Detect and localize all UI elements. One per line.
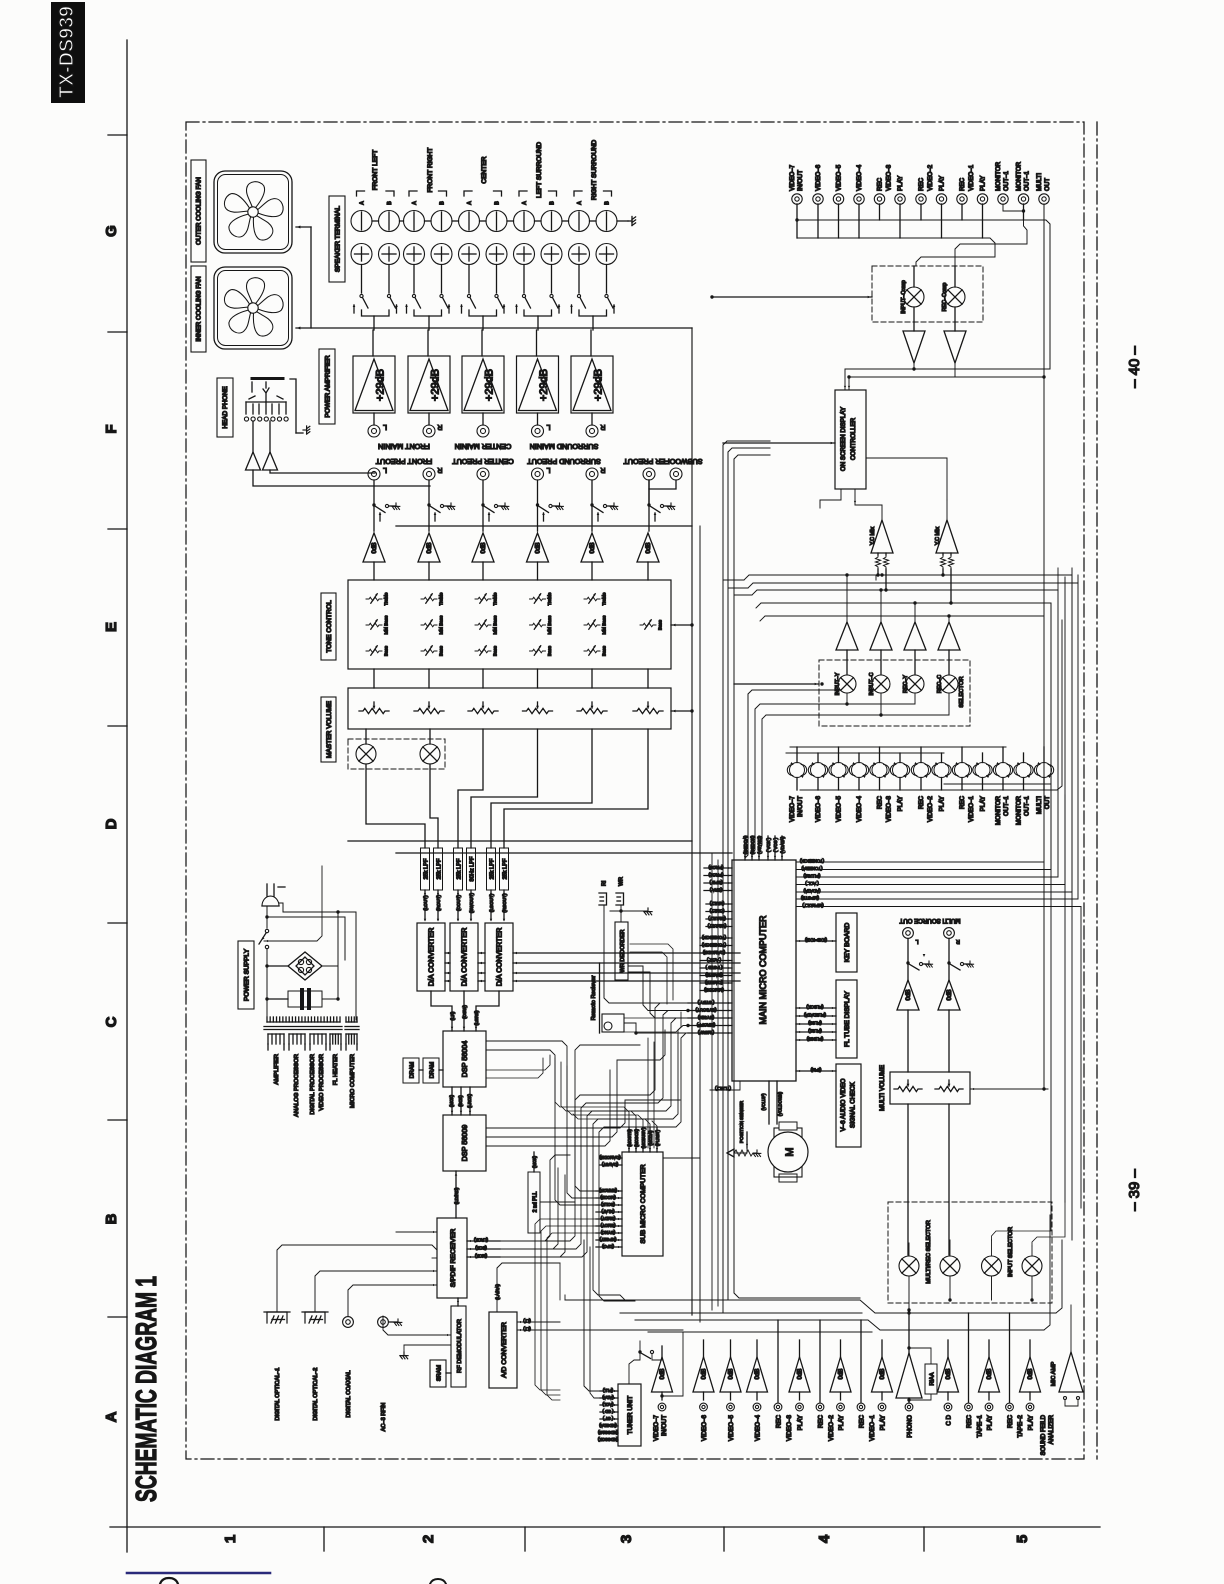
svg-text:(LR): (LR) [450,1011,455,1020]
svg-text:DRAM: DRAM [430,1061,436,1078]
svg-text:SUB MICRO COMPUTER: SUB MICRO COMPUTER [640,1164,647,1243]
svg-text:VIDEO–5: VIDEO–5 [836,795,843,822]
svg-text:B: B [605,201,611,205]
tone pot subwoofer [640,623,656,627]
svg-text:Bass: Bass [547,645,552,656]
tone pots ch5 [584,597,600,601]
wire optical1 to spdif [277,1245,437,1312]
svg-text:(MPMULT): (MPMULT) [802,903,824,908]
svg-text:VIDEO–7: VIDEO–7 [653,1414,660,1441]
svg-text:(FLS1): (FLS1) [808,1029,822,1034]
wire optical2 to spdif [315,1271,437,1312]
svg-text:Bass: Bass [439,645,444,656]
svg-text:TAPE–2: TAPE–2 [1017,1414,1024,1437]
svg-text:PLAY: PLAY [897,796,904,811]
relay multi/rec L [899,1256,919,1276]
svg-text:SOUND FEILD: SOUND FEILD [1041,1414,1047,1455]
inner cooling fan [214,267,292,349]
main micro right bus wires [796,616,1044,862]
svg-text:IN/OUT: IN/OUT [797,170,804,191]
wire IPM link [796,1070,836,1072]
wire osd bottom links [820,489,841,508]
svg-text:(DAVST): (DAVST) [601,1162,618,1167]
svg-text:SIGNAL CHECK: SIGNAL CHECK [850,1081,857,1128]
svg-text:KEY BOARD: KEY BOARD [844,923,851,963]
LPF filter 25k LPF 5 [487,848,496,890]
svg-text:(PLL): (PLL) [602,1388,613,1393]
svg-text:R: R [600,423,605,430]
wire mv4 to lpf [471,729,538,848]
mute relay R [420,744,440,764]
svg-text:25k LPF: 25k LPF [436,858,442,879]
svg-text:(MCDA): (MCDA) [648,1130,653,1146]
wire video row bus lower [800,620,1062,790]
svg-text:(OMLT): (OMLT) [709,908,724,913]
schematic dash-dot border [186,122,1084,1459]
relay multi/rec R [940,1256,960,1276]
svg-text:FL TUBE DISPLAY: FL TUBE DISPLAY [844,990,851,1047]
wire video top bus B [797,238,995,266]
wire spdif left bundle [396,1231,437,1233]
svg-text:B: B [103,1213,120,1224]
sub micro computer [622,1152,663,1256]
digital optical-2 connector [305,1312,325,1323]
main micro computer [732,860,796,1081]
wire dsp9 to spdif (LD/RD) [455,1171,457,1218]
tone control box [348,580,671,669]
wire switched feed [264,866,322,941]
svg-text:PLAY: PLAY [980,796,987,811]
mute relay L [356,744,376,764]
multi source 0dB amps [897,980,919,1010]
svg-text:CENTER PREOUT: CENTER PREOUT [452,457,514,466]
svg-text:SUBWOOFER PREOUT: SUBWOOFER PREOUT [623,457,703,466]
svg-text:Treble: Treble [602,592,607,605]
svg-text:(DAMODE): (DAMODE) [702,950,725,955]
svg-text:R: R [437,466,442,473]
svg-text:(LOUT): (LOUT) [423,895,428,911]
wire bus rounded x748 [745,690,840,858]
svg-text:HEAD PHONE: HEAD PHONE [222,386,229,428]
wire mv sub input arrow [671,710,692,712]
svg-text:+29dB: +29dB [538,369,550,401]
svg-text:(MCOE): (MCOE) [600,1195,616,1200]
wire osd feeds [845,368,914,370]
wire bus x712 long [711,853,713,1310]
svg-text:CONTROLLER: CONTROLLER [850,417,857,460]
svg-text:REC: REC [859,1414,866,1428]
svg-text:0dB: 0dB [645,542,652,553]
master volume pot 2 [414,708,444,713]
svg-text:3: 3 [618,1535,635,1543]
wire decoder out [628,966,688,1011]
wire remote bundle verticals [647,1038,649,1148]
on screen display controller [835,390,866,489]
svg-text:TX-DS939: TX-DS939 [56,6,78,98]
svg-text:0dB: 0dB [946,989,953,1000]
key board box [836,913,857,972]
svg-text:0dB: 0dB [755,1369,761,1380]
svg-text:DIGITAL COAXIAL: DIGITAL COAXIAL [346,1371,352,1418]
svg-text:25k LPF: 25k LPF [502,858,508,879]
svg-text:(PRO1): (PRO1) [708,872,723,877]
D/A converter 1 [417,923,445,991]
svg-text:REC: REC [776,1414,783,1428]
svg-text:(SMOT): (SMOT) [600,1223,615,1228]
mainin jacks [368,425,380,437]
Y.C mix amp 2 [936,520,958,553]
svg-text:(SYNC): (SYNC) [600,1230,615,1235]
main micro top pins [744,836,746,860]
svg-text:REC–Comp: REC–Comp [942,283,948,312]
wire bottom bus to spdif [564,1295,566,1300]
speaker terminal jacks minus row [351,211,372,232]
svg-text:MIC AMP: MIC AMP [1051,1362,1057,1387]
wire video top bus A [797,220,1050,369]
svg-text:L: L [915,938,918,944]
wire 2nd pll [533,1152,535,1172]
left ruler line [126,40,128,1552]
wire right verticals to bottom [1050,603,1052,1210]
svg-text:D/A CONVERTER: D/A CONVERTER [460,928,469,987]
wire horizontal bus b [396,852,732,854]
svg-text:DSP 56009: DSP 56009 [460,1125,469,1162]
svg-text:SURROUND MAININ: SURROUND MAININ [530,442,599,451]
wire spdif-rfdemod [457,1298,459,1306]
outer cooling fan label [191,160,206,262]
svg-text:(TONEBOX): (TONEBOX) [799,859,824,864]
wire video row stubs [796,747,798,763]
multi source switches [907,939,909,963]
svg-text:DIGITAL PROCESSOR: DIGITAL PROCESSOR [310,1054,316,1115]
sub micro left pins [596,1190,622,1192]
svg-text:0dB: 0dB [839,1369,845,1380]
svg-text:L: L [383,466,387,473]
wire input selector feeds [1032,1202,1065,1246]
remote receiver box [602,1014,624,1032]
yc mix resistors 1 [875,555,880,569]
svg-text:MULTI: MULTI [1036,173,1043,191]
bottom jacks [658,1403,666,1411]
svg-text:(LRCK): (LRCK) [467,1093,472,1108]
head phone amps [252,421,254,452]
svg-text:POSITION SENSER: POSITION SENSER [739,1100,744,1143]
svg-text:Mid Bass: Mid Bass [439,615,444,635]
input-comp relay [904,287,924,307]
svg-text:PLAY: PLAY [939,796,946,811]
svg-text:0dB: 0dB [987,1369,993,1380]
svg-text:Remoto Reciever: Remoto Reciever [591,976,597,1021]
svg-text:A: A [103,1411,120,1422]
wire da3 out (LSRS) [476,991,499,1031]
wire da2 out (CSW) [463,991,465,1031]
svg-text:VIDEO–7: VIDEO–7 [789,164,796,191]
s/pdif receiver [437,1218,467,1298]
svg-text:ANALOG PROCESSOR: ANALOG PROCESSOR [294,1054,300,1117]
svg-text:MONITOR: MONITOR [1016,161,1023,191]
power amp +29dB ch5 [571,356,613,413]
wire bundle decoder to main micro [630,944,673,1000]
svg-text:0dB: 0dB [905,989,912,1000]
svg-text:A: A [360,201,366,205]
svg-text:VIDEO–3: VIDEO–3 [886,795,893,822]
svg-text:MONITOR: MONITOR [1016,795,1023,825]
A/D converter [489,1312,517,1388]
wire ri wr gnd [603,905,605,911]
svg-text:RI: RI [602,881,608,886]
svg-text:0dB: 0dB [798,1369,804,1380]
svg-text:VIDEO–2: VIDEO–2 [927,164,934,191]
selector relay REC-Y [906,675,924,693]
svg-text:B: B [550,201,556,205]
svg-text:( VCK ): ( VCK ) [766,837,771,852]
ac-3 rfin jack [378,1317,389,1328]
wire video bus to osd [913,363,915,369]
LPF pin (ROUT) [437,890,439,920]
svg-text:FRONT LEFT: FRONT LEFT [372,150,379,191]
svg-text:B: B [387,201,393,205]
wire bus x728 [728,448,770,1300]
main micro left pins group4 [688,1002,732,1004]
svg-text:V–6 AUDIO VIDEO: V–6 AUDIO VIDEO [840,1078,847,1131]
svg-text:0dB: 0dB [589,542,596,553]
connector WR [616,893,624,905]
sub micro top pins [628,1128,630,1152]
svg-text:MULTI SOURCE OUT: MULTI SOURCE OUT [899,917,960,924]
wire remote out [624,1023,688,1033]
svg-text:( SD ): ( SD ) [602,1409,614,1414]
svg-text:( VCS ): ( VCS ) [773,837,778,852]
svg-text:VIDEO–6: VIDEO–6 [815,795,822,822]
svg-text:VIDEO–2: VIDEO–2 [828,1414,835,1441]
wire dram link [419,1069,423,1071]
svg-text:– 39 –: – 39 – [1126,1168,1143,1210]
wire la/ra [497,1263,560,1312]
rectifier [288,952,322,980]
LPF pin (RSOUT) [503,890,505,920]
svg-text:(ERROR): (ERROR) [598,1188,617,1193]
bottom blue mark [127,1572,270,1575]
svg-text:VIDEO–1: VIDEO–1 [869,1414,876,1441]
svg-text:+29dB: +29dB [593,369,605,401]
main micro left pins group2 [706,903,732,905]
ground speaker common [628,217,636,226]
wire multi out long drop [1043,204,1045,1089]
svg-text:S/PDIF RECEIVER: S/PDIF RECEIVER [450,1229,457,1288]
svg-text:MONITOR: MONITOR [995,161,1002,191]
svg-text:5: 5 [1014,1535,1031,1543]
svg-text:SPEAKER TERMINAL: SPEAKER TERMINAL [334,206,341,273]
mute relay box [348,739,445,769]
transformer core [264,1026,342,1028]
video top jacks [792,194,802,204]
svg-text:AC–3 RFIN: AC–3 RFIN [381,1403,387,1432]
svg-text:REC: REC [877,177,884,191]
sub micro left pins upper [600,1157,622,1159]
svg-text:VIDEO–4: VIDEO–4 [755,1414,762,1441]
tuner unit box [618,1384,641,1446]
volume motor [774,1128,802,1177]
svg-text:2: 2 [420,1535,437,1543]
LPF pin (LOUT) [424,890,426,920]
connector RI [599,893,607,905]
wire video7 inout loop [662,1332,683,1396]
svg-text:(SMDT): (SMDT) [600,1216,615,1221]
wire da control bus [513,952,740,954]
wire monitor out links [1003,204,1024,211]
wire selector bus lines [744,575,1072,580]
wire ps rail2 [266,906,268,928]
svg-text:Mid Bass: Mid Bass [547,615,552,635]
svg-text:(RSOUT): (RSOUT) [502,893,507,913]
wire bundle sub micro top pins [555,1058,629,1128]
svg-text:0dB: 0dB [535,542,542,553]
svg-text:REC: REC [877,795,884,809]
outer cooling fan [214,171,292,253]
wire headphone L [270,470,375,473]
main micro left pins group1 [704,867,732,869]
DRAM 2 [423,1058,439,1083]
svg-text:Bass: Bass [493,645,498,656]
svg-text:PHONO: PHONO [907,1415,914,1438]
tone pots ch1 [366,597,382,601]
svg-text:VIDEO–1: VIDEO–1 [968,795,975,822]
selector relay INPUT-C [872,675,890,693]
svg-text:(MCBUSY): (MCBUSY) [641,1127,646,1148]
wire headphone R [253,470,430,486]
transformer secondary windings [267,1034,269,1044]
head phone jack [252,377,283,380]
ground near rf [403,1345,405,1352]
LPF pin (LSOUT) [490,890,492,920]
svg-text:+29dB: +29dB [484,369,496,401]
mic amp [1059,1352,1083,1392]
wire dsp4 to dsp9 [451,1087,453,1115]
svg-text:0dB: 0dB [480,542,487,553]
wire ps top rail [279,903,356,1020]
master volume pot 5 [577,708,607,713]
svg-text:25k LPF: 25k LPF [489,858,495,879]
power switch [265,929,268,932]
speaker terminal label [329,196,345,282]
svg-text:(VOLDOWN): (VOLDOWN) [778,1091,783,1116]
svg-text:A: A [522,201,528,205]
svg-text:Y.C MIx: Y.C MIx [870,526,876,545]
svg-text:VIDEO–4: VIDEO–4 [856,164,863,191]
svg-text:PLAY: PLAY [939,176,946,191]
svg-text:MULTI: MULTI [1036,796,1043,814]
svg-text:(MCK): (MCK) [532,1155,537,1168]
svg-text:(LT): (LT) [523,1319,531,1324]
V-6 audio video signal check box [836,1064,861,1147]
svg-text:– 40 –: – 40 – [1126,345,1143,387]
svg-text:Treble: Treble [384,592,389,605]
svg-text:PLAY: PLAY [897,176,904,191]
video direction switches [790,763,805,778]
svg-text:REC: REC [959,795,966,809]
wire mv1 to lpf [366,764,425,848]
svg-text:TONE CONTROL: TONE CONTROL [326,600,333,653]
svg-text:SRAM: SRAM [437,1365,443,1382]
svg-text:(BCK): (BCK) [475,1246,487,1251]
master volume pot 1 [359,708,389,713]
wire bottom selector in/out [908,1276,910,1313]
head phone label [217,378,233,437]
svg-text:B: B [440,201,446,205]
svg-text:SCHEMATIC DIAGRAM 1: SCHEMATIC DIAGRAM 1 [131,1276,163,1502]
svg-text:(TONEBOX): (TONEBOX) [701,942,726,947]
svg-text:(ADA): (ADA) [602,1395,614,1400]
wire multi vol outs [907,1104,909,1255]
svg-text:OUT–1: OUT–1 [1024,795,1031,816]
svg-text:SURROUND PREOUT: SURROUND PREOUT [527,457,601,466]
svg-text:0dB: 0dB [426,542,433,553]
svg-text:(LSRS): (LSRS) [474,1010,479,1026]
svg-text:PLAY: PLAY [987,1415,994,1430]
wire sel amp feeds [846,575,848,622]
svg-text:MAIN MICRO COMPUTER: MAIN MICRO COMPUTER [758,915,768,1024]
svg-text:WR DEDORDER: WR DEDORDER [620,930,626,973]
svg-text:(KX0–KX6): (KX0–KX6) [804,938,827,943]
tuner pins [600,1390,618,1392]
svg-text:ANALIZER: ANALIZER [1049,1414,1055,1444]
svg-text:D: D [103,818,120,829]
video selector dashed box [819,660,970,726]
svg-text:F: F [103,424,120,433]
power amplifier label [319,349,335,424]
wire keyboard link [796,940,836,942]
svg-text:Y.C MIx: Y.C MIx [935,526,941,545]
svg-text:(MULT): (MULT) [709,901,724,906]
relay input R [1022,1256,1042,1276]
svg-text:A: A [467,201,473,205]
svg-text:(TONEBA): (TONEBA) [801,866,822,871]
svg-text:RF DEMODULATOR: RF DEMODULATOR [457,1319,463,1373]
svg-text:MICRO COMPUTER: MICRO COMPUTER [350,1054,356,1108]
svg-text:(NDSS1G): (NDSS1G) [597,1430,618,1435]
bottom ruler ticks [323,1527,325,1551]
svg-text:(MCK): (MCK) [449,1094,454,1107]
svg-text:D/A CONVERTER: D/A CONVERTER [495,928,504,987]
D/A converter 3 [485,923,513,991]
svg-text:RIGHT SURROUND: RIGHT SURROUND [591,140,598,201]
master volume pot 6 [633,708,663,713]
LPF filter 25k LPF 1 [421,848,430,890]
svg-text:(MMODE): (MMODE) [704,987,724,992]
svg-text:0dB: 0dB [660,1369,666,1380]
svg-text:PLAY: PLAY [797,1415,804,1430]
svg-text:Treble: Treble [439,592,444,605]
yc mix resistors 2 [940,555,945,569]
power supply label [238,941,254,1009]
svg-text:(TONEBOX): (TONEBOX) [701,935,726,940]
svg-text:A: A [577,201,583,205]
svg-text:(MCSCK): (MCSCK) [634,1128,639,1147]
svg-text:DIGITAL OPTICAL–2: DIGITAL OPTICAL–2 [313,1368,319,1421]
svg-text:Mid Bass: Mid Bass [493,615,498,635]
wire spdif to sub bundle [500,1155,570,1241]
svg-text:(PLUS2): (PLUS2) [803,874,820,879]
left ruler ticks [108,134,127,136]
svg-text:Treble: Treble [547,592,552,605]
wire bundle main micro LP4 to bottom [505,1003,688,1241]
svg-text:0dB: 0dB [946,1369,952,1380]
Y.C mix amp 1 [871,520,893,553]
wire mv3 to lpf [458,729,483,848]
main micro bottom pins volup/voldown [768,1081,770,1124]
svg-text:TAPE–1: TAPE–1 [977,1414,984,1437]
WR decoder box [615,922,628,980]
